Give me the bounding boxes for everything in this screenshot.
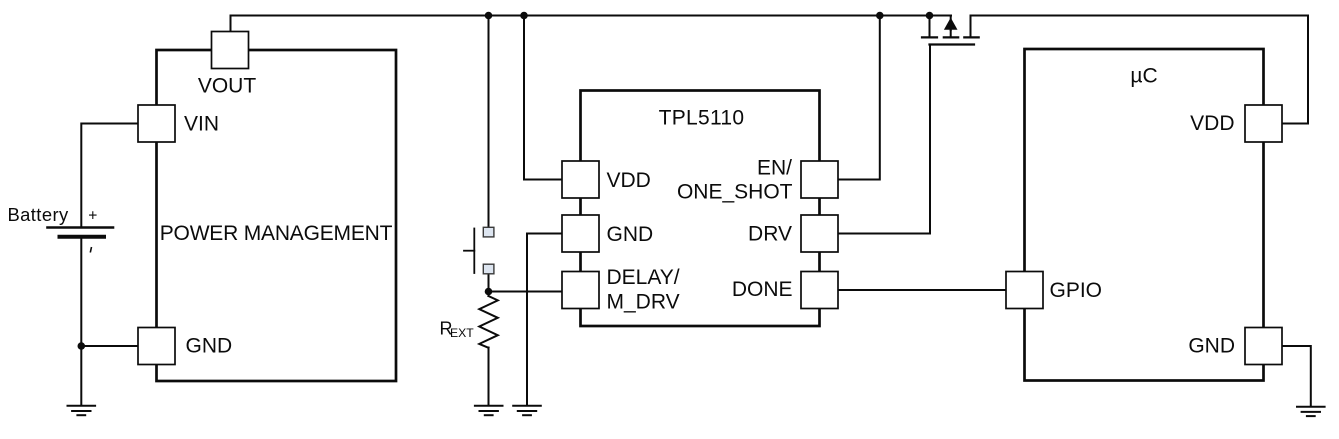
svg-text:VDD: VDD <box>607 169 651 192</box>
wire: resistor to ground <box>488 348 490 405</box>
svg-text:M_DRV: M_DRV <box>607 291 680 314</box>
label DONE <box>732 278 793 301</box>
label VOUT <box>198 75 257 98</box>
svg-text:DRV: DRV <box>748 223 792 246</box>
svg-text:Battery: Battery <box>8 204 69 225</box>
wire: rail to pushbutton <box>488 16 490 228</box>
pin µC VDD box <box>1245 105 1282 142</box>
junction node: rail/EN riser <box>876 12 884 20</box>
pin TPL DRV box <box>801 215 838 252</box>
pushbutton S1 <box>464 227 494 274</box>
svg-text:GND: GND <box>186 335 233 358</box>
svg-text:ONE_SHOT: ONE_SHOT <box>677 181 793 204</box>
resistor R_EXT <box>479 296 498 348</box>
label battery plus <box>88 207 97 224</box>
svg-text:DONE: DONE <box>732 278 793 301</box>
TPL5110 block U1 <box>581 91 820 327</box>
wire: pushbutton to node <box>488 274 490 296</box>
power-management block <box>157 50 397 381</box>
svg-text:EXT: EXT <box>450 326 474 340</box>
svg-text:VIN: VIN <box>184 113 219 136</box>
label DRV <box>748 223 792 246</box>
svg-text:DELAY/: DELAY/ <box>607 266 680 289</box>
label Battery <box>8 204 69 225</box>
svg-text:GND: GND <box>1188 335 1235 358</box>
wire: VOUT riser <box>230 16 232 32</box>
pin VOUT box <box>212 32 249 69</box>
pin TPL DONE box <box>801 272 838 309</box>
wire: EN/ONE_SHOT to rail <box>839 16 880 180</box>
wire: DONE to GPIO <box>839 289 1006 291</box>
svg-text:VDD: VDD <box>1190 112 1234 135</box>
label µC <box>1130 65 1157 88</box>
label POWER MANAGEMENT <box>160 222 393 245</box>
junction node: rail/VDD riser <box>520 12 528 20</box>
svg-text:+: + <box>88 207 97 224</box>
svg-text:EN/: EN/ <box>757 157 792 180</box>
label EN/ <box>757 157 792 180</box>
microcontroller block µC <box>1025 49 1264 381</box>
junction node: rail/button riser <box>485 12 493 20</box>
label GPIO <box>1050 279 1103 302</box>
label µC GND <box>1188 335 1235 358</box>
wire: battery plus to VIN <box>81 124 137 227</box>
label DELAY/ <box>607 266 680 289</box>
pin µC GPIO box <box>1006 272 1043 309</box>
ground: battery <box>68 406 96 415</box>
label ONE_SHOT <box>677 181 793 204</box>
label VIN <box>184 113 219 136</box>
label R_EXT <box>440 319 475 341</box>
wire: rail to TPL VDD <box>524 16 562 180</box>
pin TPL VDD box <box>562 161 599 198</box>
junction node: battery/PM GND <box>78 342 86 350</box>
svg-text:POWER MANAGEMENT: POWER MANAGEMENT <box>160 222 393 245</box>
battery BT1 <box>48 228 114 237</box>
svg-text:VOUT: VOUT <box>198 75 257 98</box>
pin µC GND box <box>1245 328 1282 365</box>
label µC VDD <box>1190 112 1234 135</box>
junction node: DELAY/resistor <box>485 288 493 296</box>
wire: drain rail to µC VDD <box>971 16 1309 124</box>
svg-text:GND: GND <box>607 223 654 246</box>
label M_DRV <box>607 291 680 314</box>
pin TPL GND box <box>562 215 599 252</box>
ground: TPL5110 GND <box>513 406 541 415</box>
wire: node to DELAY/M_DRV <box>489 291 562 293</box>
label TPL GND <box>607 223 654 246</box>
label TPL5110 <box>659 107 745 130</box>
pin VIN box <box>138 105 175 142</box>
pin PM GND box <box>138 328 175 365</box>
label TPL VDD <box>607 169 651 192</box>
junction node: rail/source <box>926 12 934 20</box>
wire: TPL GND to ground <box>527 234 562 405</box>
wire: node to PM GND <box>81 345 137 347</box>
ground: resistor R_EXT <box>475 406 503 415</box>
ground: µC GND <box>1297 407 1325 416</box>
pin TPL EN/ONE_SHOT box <box>801 161 838 198</box>
wire: DRV to gate <box>839 45 930 234</box>
label PM GND <box>186 335 233 358</box>
transistor Q1 PMOS <box>922 16 979 45</box>
wire: µC GND to ground <box>1284 346 1311 406</box>
wire: battery minus to ground <box>80 239 82 405</box>
svg-text:GPIO: GPIO <box>1050 279 1103 302</box>
label battery minus tick <box>90 247 91 253</box>
svg-text:TPL5110: TPL5110 <box>659 107 745 130</box>
pin TPL DELAY/M_DRV box <box>562 272 599 309</box>
svg-text:µC: µC <box>1130 65 1157 88</box>
wire: top VOUT rail <box>231 15 952 17</box>
